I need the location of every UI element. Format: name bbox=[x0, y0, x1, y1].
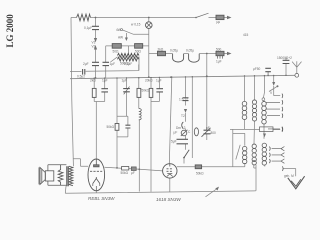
svg-text:0,5μ2: 0,5μ2 bbox=[77, 75, 85, 79]
svg-text:μF: μF bbox=[174, 131, 178, 135]
svg-text:50Ω: 50Ω bbox=[135, 50, 142, 54]
svg-text:μF: μF bbox=[131, 171, 135, 175]
svg-text:2kΩ: 2kΩ bbox=[90, 79, 96, 83]
svg-text:50kΩ: 50kΩ bbox=[121, 171, 129, 175]
svg-text:20kΩ: 20kΩ bbox=[145, 79, 153, 83]
svg-text:AW: AW bbox=[118, 36, 123, 40]
svg-text:800: 800 bbox=[211, 131, 217, 135]
svg-text:LG 2000: LG 2000 bbox=[5, 14, 15, 48]
svg-text:50kΩ: 50kΩ bbox=[196, 172, 204, 176]
svg-text:2μF: 2μF bbox=[83, 62, 89, 66]
svg-text:0,1μF: 0,1μF bbox=[84, 26, 92, 30]
svg-text:1μF: 1μF bbox=[216, 60, 222, 64]
svg-text:T2: T2 bbox=[181, 114, 185, 118]
svg-text:1μF: 1μF bbox=[110, 62, 116, 66]
svg-text:5μF: 5μF bbox=[171, 140, 177, 144]
svg-text:500: 500 bbox=[216, 48, 222, 52]
svg-text:2kΩ: 2kΩ bbox=[158, 48, 164, 52]
svg-text:w 0,15: w 0,15 bbox=[131, 23, 141, 27]
svg-text:1μF: 1μF bbox=[102, 79, 108, 83]
svg-text:1μF: 1μF bbox=[156, 79, 162, 83]
svg-text:15000Ω+2: 15000Ω+2 bbox=[277, 56, 292, 60]
svg-text:415: 415 bbox=[243, 33, 249, 37]
svg-text:μF: μF bbox=[206, 126, 210, 130]
svg-text:1,5 12: 1,5 12 bbox=[179, 98, 188, 102]
svg-text:geh. M: geh. M bbox=[284, 174, 294, 178]
svg-text:μμ: μμ bbox=[217, 20, 221, 24]
svg-text:V2: V2 bbox=[92, 45, 96, 49]
svg-text:1μF: 1μF bbox=[122, 79, 128, 83]
svg-text:0,05μ: 0,05μ bbox=[170, 49, 178, 53]
svg-text:0,05μ: 0,05μ bbox=[186, 49, 194, 53]
svg-text:50Ω: 50Ω bbox=[113, 50, 120, 54]
svg-text:REBL SN3W: REBL SN3W bbox=[88, 196, 115, 201]
svg-text:Dm 12: Dm 12 bbox=[176, 126, 186, 130]
svg-text:50kΩ: 50kΩ bbox=[107, 125, 115, 129]
svg-text:μF50: μF50 bbox=[253, 67, 261, 71]
svg-text:4W: 4W bbox=[116, 28, 121, 32]
svg-text:1618 SN3W: 1618 SN3W bbox=[156, 197, 181, 202]
svg-text:50kΩ: 50kΩ bbox=[142, 89, 150, 93]
svg-text:0,1μF: 0,1μF bbox=[124, 62, 132, 66]
